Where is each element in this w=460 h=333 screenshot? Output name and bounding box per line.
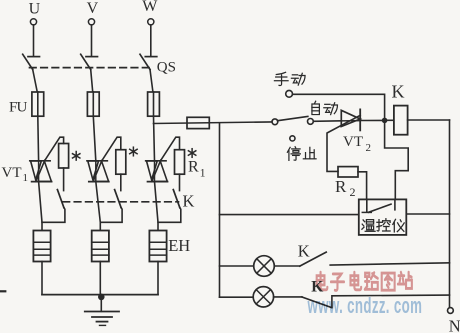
fuse FU (W phase) — [153, 92, 155, 116]
watermark www.cndzz.com (blue) — [307, 292, 422, 318]
wire: heater to neutral bus (V phase) — [99, 262, 101, 295]
switch QS pole 1 blade — [23, 54, 33, 69]
svg-text:N: N — [449, 317, 460, 333]
wire: coil K to N rail — [408, 119, 450, 121]
wire: contact K to cathode bus (V phase) — [100, 208, 122, 223]
contact K (lamp 1) blade — [300, 252, 326, 266]
svg-text:K: K — [311, 278, 323, 295]
contact 停止 (stop) — [290, 136, 295, 141]
contact 自动 (auto) — [308, 119, 314, 125]
resistor * (parallel branch, U phase) — [59, 144, 69, 169]
switch QS pole 3 blade — [140, 54, 150, 69]
gate wire of VT1 U to parallel branch — [44, 137, 63, 161]
wire: QS pole 3 to fuse FU 3 — [150, 70, 154, 93]
switch QS pole 2 blade — [81, 54, 91, 69]
wire: QS pole 1 to fuse FU 1 — [33, 70, 38, 93]
wire: feed to controller (left side) — [220, 214, 359, 216]
contact K blade (U phase) — [57, 190, 64, 208]
asterisk mark (V phase) — [132, 147, 134, 156]
svg-text:V: V — [87, 0, 99, 17]
gate wire of VT1 W to parallel branch — [160, 137, 179, 161]
wire: VT1 cathode down to heater EH (W phase) — [155, 182, 159, 231]
contact K blade (W phase) — [173, 190, 180, 208]
svg-text:U: U — [29, 1, 41, 18]
heater EH (V phase) — [92, 231, 109, 262]
contact K (lamp 2) blade — [302, 297, 332, 308]
N rail wire — [449, 120, 451, 308]
wire: lamp 1 to contact K — [274, 265, 300, 267]
wire: contact K to cathode bus (U phase) — [42, 208, 65, 223]
asterisk mark (U phase) — [75, 152, 77, 161]
asterisk mark (W phase) — [191, 149, 193, 158]
lamp 1 — [254, 256, 275, 277]
terminal N — [448, 308, 454, 314]
svg-text:R: R — [335, 177, 347, 196]
thyristor VT1 (W phase, triac symbol) — [154, 161, 156, 182]
svg-text:QS: QS — [157, 60, 176, 76]
relay coil K — [394, 106, 408, 135]
wire: terminal V to switch QS pole 2 — [91, 25, 93, 55]
resistor * (parallel branch, W phase) — [175, 150, 185, 175]
selector common contact — [272, 119, 278, 125]
svg-text:K: K — [392, 82, 405, 102]
controller internal right terminal — [394, 199, 396, 209]
wire: control feed from W phase — [154, 122, 273, 124]
wire: VT2 cathode to node A — [360, 119, 384, 121]
svg-text:2: 2 — [350, 185, 356, 199]
watermark 电子电路图站 (red) — [317, 272, 412, 290]
svg-text:FU: FU — [9, 100, 28, 116]
label 自动 (auto) — [312, 101, 319, 114]
svg-text:1: 1 — [23, 172, 29, 184]
lamp 2 — [253, 287, 273, 307]
svg-text:1: 1 — [200, 168, 206, 180]
contact K blade (V phase) — [115, 190, 122, 208]
wire: resistor to contact K (V phase) — [120, 174, 122, 190]
wire: heater to neutral bus (W phase) — [157, 262, 159, 295]
wire: contact K to N rail (lamp 2) — [332, 295, 450, 308]
thyristor VT1 (U phase, triac symbol) — [38, 161, 40, 182]
fuse FU (V phase) — [92, 92, 94, 116]
wire: fuse to thyristor VT1 (V phase) — [93, 116, 96, 161]
gate wire of VT1 V to parallel branch — [102, 137, 121, 161]
wire: auto contact to VT2 anode — [313, 120, 341, 123]
wire: controller to N rail (right side) — [406, 213, 449, 215]
wire: control feed down to lamps and controller — [219, 123, 221, 297]
controller internal contact blade — [369, 204, 392, 212]
svg-text:W: W — [142, 0, 158, 15]
wire: feed to lamp 2 — [220, 296, 254, 298]
label 手动 (manual) — [274, 72, 288, 85]
temperature controller 温控仪 box — [359, 199, 407, 235]
controller internal left terminal — [366, 199, 368, 212]
wire: VT1 cathode down to heater EH (U phase) — [39, 182, 42, 231]
svg-text:K: K — [298, 241, 310, 260]
wire: terminal W to switch QS pole 3 — [150, 25, 152, 55]
contact 手动 (manual) — [286, 90, 293, 97]
switch QS pole 1 fixed contact — [28, 56, 40, 58]
stray mark at left edge — [0, 290, 5, 292]
wire: fuse to thyristor VT1 (U phase) — [37, 116, 40, 161]
label 停止 (stop) — [287, 147, 300, 161]
thyristor VT1 (V phase, triac symbol) — [95, 161, 97, 182]
svg-text:VT: VT — [343, 134, 363, 150]
svg-text:K: K — [183, 192, 195, 211]
wire: lamp 2 to contact K — [274, 296, 302, 298]
contact K linkage dashed line — [63, 201, 179, 203]
node A junction — [382, 118, 388, 124]
svg-text:2: 2 — [366, 142, 372, 154]
wire: resistor to contact K (U phase) — [63, 168, 65, 191]
wire: heater to neutral bus (U phase) — [41, 262, 43, 295]
gate wire of VT2 down to R2 — [327, 115, 360, 171]
svg-text:R: R — [188, 159, 199, 176]
neutral bus wire — [42, 294, 158, 296]
svg-text:EH: EH — [168, 236, 190, 255]
wire: manual contact to node A — [293, 94, 385, 120]
wire: fuse to thyristor VT1 (W phase) — [154, 116, 155, 161]
switch QS mechanical linkage (dashed) — [30, 67, 154, 69]
wire: VT1 cathode down to heater EH (V phase) — [96, 182, 101, 231]
svg-text:www. cndzz. com: www. cndzz. com — [307, 292, 422, 318]
wire: resistor to contact K (W phase) — [179, 174, 181, 190]
resistor * (parallel branch, V phase) — [116, 150, 126, 175]
fuse FU (U phase) — [37, 92, 39, 116]
wire: node A to coil K — [385, 119, 394, 121]
selector blade — [278, 116, 308, 120]
wire: contact K to N rail (lamp 1) — [330, 263, 449, 265]
svg-text:VT: VT — [2, 165, 22, 181]
junction node at star point — [98, 294, 105, 301]
heater EH (W phase) — [149, 231, 166, 262]
fuse (control circuit) — [187, 117, 209, 128]
thyristor VT2 — [341, 120, 360, 122]
wire: QS pole 2 to fuse FU 2 — [91, 70, 94, 93]
heater EH (U phase) — [33, 231, 50, 262]
switch QS pole 3 fixed contact — [145, 56, 157, 58]
wire: R2 to controller left terminal — [358, 172, 367, 200]
switch QS pole 2 fixed contact — [86, 56, 98, 58]
ground — [100, 295, 102, 312]
wire: contact K to cathode bus (W phase) — [158, 208, 181, 223]
wire: feed to lamp 1 — [220, 265, 254, 267]
wire: terminal U to switch QS pole 1 — [33, 25, 35, 55]
wire: node A down to controller right terminal — [385, 120, 409, 199]
label 温控仪 — [362, 220, 375, 232]
resistor R2 — [338, 167, 358, 177]
